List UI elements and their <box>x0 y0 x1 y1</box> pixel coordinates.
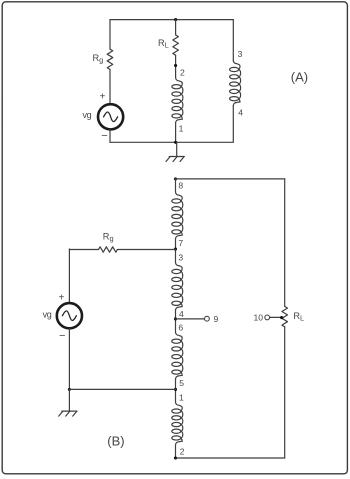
wire: circuit A bottom bus <box>110 141 233 143</box>
node: terminal 2 dot (A) <box>174 64 177 67</box>
svg-text:3: 3 <box>238 49 243 59</box>
inductor winding 3-4 (circuit A) <box>230 60 241 105</box>
wire: B left branch lower segment (source to bottom-left node) <box>68 328 70 389</box>
svg-text:10: 10 <box>254 312 264 322</box>
wire: A left branch upper segment (top bus to Rg) <box>109 20 111 49</box>
svg-text:6: 6 <box>178 323 183 333</box>
svg-text:Rg: Rg <box>93 53 104 65</box>
wire: tap from node 4 to terminal 9 <box>176 318 205 320</box>
svg-text:−: − <box>101 130 107 142</box>
node: terminal 5/1 junction dot (B) <box>174 388 177 391</box>
svg-text:5: 5 <box>179 378 184 388</box>
wire: A middle branch segment (coil to bottom bus) <box>175 123 177 142</box>
wire: B left branch upper segment (to source) <box>68 249 70 303</box>
svg-text:+: + <box>100 92 106 103</box>
wire: B right branch lower segment (RL to bottom bus) <box>284 327 286 458</box>
wire: A left branch lower segment (source to bottom bus) <box>109 129 111 142</box>
inductor winding 3-4 (B) <box>175 251 177 262</box>
svg-text:3: 3 <box>178 253 183 263</box>
node: terminal 4 junction dot (B) <box>174 317 177 320</box>
wire: B right branch upper segment (top bus down to RL) <box>284 179 286 307</box>
svg-text:vg: vg <box>83 110 92 120</box>
svg-text:−: − <box>59 330 65 342</box>
resistor Rg (circuit B) <box>99 247 118 252</box>
node: bottom-left junction dot (B) <box>68 388 71 391</box>
resistor RL (circuit A) <box>173 35 179 55</box>
resistor Rg (circuit A) <box>107 49 113 69</box>
ground symbol (circuit B) <box>59 389 77 416</box>
wire: winding 3-4 bottom lead to node 4 <box>175 310 177 322</box>
wire: A left branch middle segment (Rg to source) <box>109 69 111 103</box>
svg-text:+: + <box>59 293 65 304</box>
svg-text:8: 8 <box>178 180 183 190</box>
wire: winding 8-7 bottom lead to node 7 <box>175 239 177 251</box>
svg-text:7: 7 <box>178 238 183 248</box>
svg-text:RL: RL <box>293 311 304 323</box>
wire: A middle branch segment (top dot to RL) <box>175 20 177 35</box>
wire: bottom-left node to node 5 (B) <box>69 388 175 390</box>
svg-text:RL: RL <box>158 38 169 50</box>
svg-text:4: 4 <box>238 107 243 117</box>
svg-text:Rg: Rg <box>103 232 114 244</box>
wire: circuit A top bus from source branch to winding 3-4 branch <box>110 19 233 21</box>
svg-text:(A): (A) <box>291 69 308 84</box>
svg-text:1: 1 <box>179 124 184 134</box>
wire: winding 6-5 bottom lead to node 5 <box>175 379 177 391</box>
wire: A middle branch segment (RL to terminal 2) <box>175 55 177 77</box>
svg-text:9: 9 <box>214 314 219 324</box>
terminal 10 open circle <box>265 315 270 320</box>
inductor winding 1-2 (B) <box>175 392 177 403</box>
wire: A right branch upper segment (top bus to winding) <box>232 20 234 61</box>
svg-text:4: 4 <box>179 309 184 319</box>
wire: B bottom bus from terminal 2 to RL branch <box>176 457 285 459</box>
ground symbol (circuit A) <box>166 142 184 161</box>
inductor winding 8-7 (B) <box>175 179 177 192</box>
svg-text:2: 2 <box>180 447 185 457</box>
wire: A right branch lower segment (winding to bottom bus) <box>232 106 234 143</box>
svg-text:2: 2 <box>180 67 185 77</box>
node: A top junction dot <box>174 18 177 21</box>
source Vg (circuit A) sine generator <box>98 104 123 129</box>
svg-text:vg: vg <box>43 310 52 320</box>
node: A bottom junction dot <box>174 141 177 144</box>
wire: Rg to node 7 (B) <box>117 249 175 251</box>
node: terminal 2 junction dot (B) <box>174 456 177 459</box>
inductor winding 2-1 (circuit A secondary) <box>172 78 183 123</box>
wire: B source top wire (left branch to Rg) <box>69 249 98 251</box>
resistor RL (circuit B) <box>282 306 288 326</box>
terminal 9 open circle <box>205 316 210 321</box>
inductor winding 6-5 (B) <box>175 322 177 332</box>
svg-text:(B): (B) <box>107 434 124 449</box>
wire: B top bus from terminal 8 to RL branch <box>176 178 285 180</box>
wire: terminal 10 to RL centre tap (B) <box>270 316 282 318</box>
node: RL centre-tap dot (B) <box>280 316 283 319</box>
wire: winding 1-2 bottom lead to bottom bus <box>175 445 177 458</box>
svg-text:1: 1 <box>179 392 184 402</box>
node: terminal 7/3 junction dot (B) <box>174 247 177 250</box>
source Vg (circuit B) sine generator <box>57 303 82 328</box>
node: terminal 8 junction dot (B) <box>174 177 177 180</box>
